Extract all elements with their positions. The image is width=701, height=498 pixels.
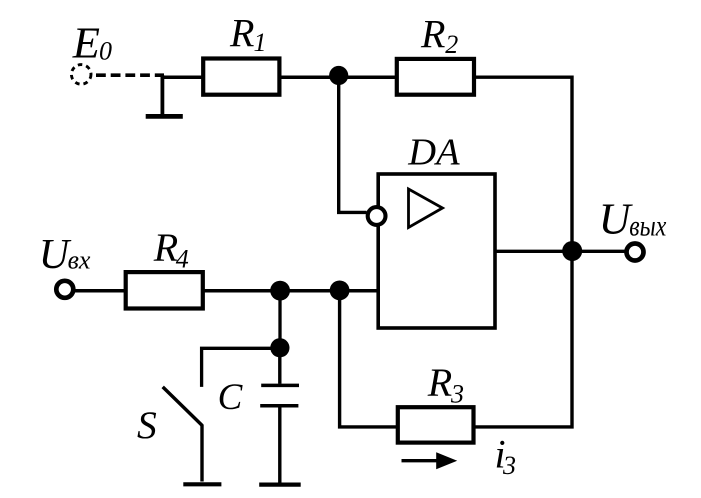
- op-amp triangle: [409, 189, 443, 228]
- svg-text:R: R: [420, 11, 445, 56]
- wire capacitor bottom: [278, 408, 281, 483]
- svg-text:2: 2: [445, 30, 458, 59]
- op-amp DA body: [378, 174, 495, 328]
- wire N5 to capacitor top plate: [278, 348, 281, 384]
- svg-text:DA: DA: [407, 132, 460, 174]
- resistor R1: [203, 59, 279, 95]
- svg-text:вых: вых: [629, 210, 667, 243]
- terminal U_vh: [56, 281, 73, 298]
- svg-text:R: R: [153, 225, 178, 270]
- node N5: [270, 338, 289, 357]
- svg-text:R: R: [427, 360, 452, 405]
- svg-text:R: R: [229, 10, 254, 55]
- svg-text:C: C: [218, 377, 244, 418]
- node N4: [330, 281, 350, 301]
- wire R4 to op-amp noninverting input: [204, 289, 379, 293]
- wire dashed E0 to ground junction: [96, 73, 164, 77]
- terminal E0 (dashed circle): [71, 65, 91, 85]
- ground GND2 switch: [183, 482, 221, 486]
- ground GND3 capacitor: [259, 483, 301, 487]
- terminal U_vyh: [627, 244, 644, 261]
- wire R1 to node N1 to R2: [281, 75, 396, 79]
- label E0: [72, 18, 112, 68]
- label R3: [427, 360, 464, 408]
- label U_vyh: [599, 195, 667, 244]
- wire N5 to switch top: [202, 348, 280, 387]
- wire R3 right to output node vertical: [475, 251, 573, 427]
- label U_vh: [39, 232, 91, 278]
- label R4: [153, 225, 189, 273]
- wire op-amp output: [495, 250, 626, 253]
- label R1: [229, 10, 267, 57]
- resistor R4: [126, 272, 203, 308]
- wire N3 down to N5: [278, 291, 281, 348]
- ground GND1: [146, 75, 183, 116]
- wire ground junction to R1: [161, 75, 202, 79]
- switch S blade: [163, 387, 203, 426]
- svg-text:E: E: [72, 18, 100, 68]
- svg-text:вх: вх: [68, 246, 91, 275]
- svg-text:1: 1: [254, 28, 267, 57]
- svg-text:4: 4: [176, 244, 189, 273]
- node N2 output: [562, 241, 582, 261]
- wire node N1 down to inverting input: [339, 76, 367, 212]
- resistor R2: [397, 59, 474, 95]
- wire N4 down and right to R3: [340, 291, 397, 427]
- svg-text:3: 3: [502, 451, 516, 480]
- inverting input circle: [368, 207, 386, 225]
- label R2: [420, 11, 458, 59]
- svg-text:S: S: [137, 403, 157, 447]
- node N1: [329, 66, 348, 85]
- capacitor C plates: [260, 385, 299, 405]
- svg-text:0: 0: [99, 37, 112, 66]
- resistor R3: [398, 407, 474, 442]
- label i3: [495, 432, 517, 481]
- wire U_vh to R4: [75, 289, 126, 293]
- wire R2 right then down to output node: [476, 77, 573, 252]
- node N3: [270, 281, 290, 301]
- wire switch bottom: [200, 425, 203, 482]
- current arrow i3: [402, 452, 458, 469]
- svg-text:3: 3: [450, 379, 464, 408]
